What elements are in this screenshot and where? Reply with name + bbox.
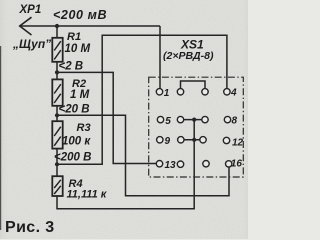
node D junction dot (57,164.3) xyxy=(55,162,59,166)
wire: node D right, up, right, down to contact 4 xyxy=(57,35,227,164)
contact 4 xyxy=(224,89,230,95)
resistor R1 xyxy=(52,38,62,62)
node C junction dot (57,115.3) xyxy=(55,113,59,117)
svg-text:16: 16 xyxy=(231,159,243,170)
svg-text:100 к: 100 к xyxy=(62,136,91,148)
svg-text:Рис. 3: Рис. 3 xyxy=(5,219,55,236)
contact 6 xyxy=(177,116,183,122)
contact 11 xyxy=(200,137,206,143)
svg-text:1: 1 xyxy=(164,88,170,99)
contact 14 xyxy=(177,161,183,167)
wire: node B right then down then to contact 13 xyxy=(57,72,156,163)
junction dot row 2 xyxy=(192,118,196,122)
contact 2 xyxy=(177,89,183,95)
resistor R2 xyxy=(52,79,62,105)
contact 7 xyxy=(202,116,208,122)
wire: contacts 10-11 link xyxy=(184,139,202,141)
wire: input node top rail y=26 from arrow to corner x=160 xyxy=(20,25,161,27)
wire: rail top to R1 xyxy=(56,26,58,38)
contact 9 xyxy=(157,137,163,143)
svg-text:R3: R3 xyxy=(77,122,91,134)
svg-text:„Щуп”: „Щуп” xyxy=(12,37,51,51)
node A junction dot (57,26) xyxy=(55,24,59,28)
svg-text:8: 8 xyxy=(232,116,238,127)
wire: R1 to node B xyxy=(56,62,58,80)
svg-text:<200 мВ: <200 мВ xyxy=(53,8,107,22)
resistor R3 xyxy=(52,121,62,148)
svg-text:10 М: 10 М xyxy=(65,43,91,55)
svg-text:12: 12 xyxy=(232,138,244,149)
wire: node C right, down, right, up to contact 16 xyxy=(57,115,229,196)
svg-text:9: 9 xyxy=(165,136,171,147)
svg-text:5: 5 xyxy=(165,116,171,127)
contact 1 xyxy=(156,89,162,95)
paper background xyxy=(0,0,248,239)
svg-text:(2×РВД-8): (2×РВД-8) xyxy=(163,50,214,62)
switch contacts: circles xyxy=(156,89,232,168)
wire: bracket shorting contacts 2 and 3 xyxy=(181,81,206,89)
contact 8 xyxy=(224,116,230,122)
contact 3 xyxy=(202,89,208,95)
svg-text:1 М: 1 М xyxy=(70,89,90,101)
connector XP1 arrowhead xyxy=(20,17,32,35)
wire: R2 to node C xyxy=(56,106,58,121)
resistor R4 xyxy=(52,176,62,196)
svg-text:11,111 к: 11,111 к xyxy=(67,189,108,201)
wire: drop to switch contact 1 xyxy=(159,26,161,89)
wire: R3 to node D xyxy=(56,149,58,177)
switch XS1 enclosure (dash-dot) xyxy=(149,77,244,177)
contact 12 xyxy=(223,137,229,143)
contact 5 xyxy=(157,116,163,122)
contact 13 xyxy=(156,161,162,167)
node B junction dot (57,72.4) xyxy=(55,70,59,74)
svg-text:<200 В: <200 В xyxy=(54,152,91,164)
contact 16 xyxy=(226,161,232,167)
svg-text:13: 13 xyxy=(165,160,177,171)
contact 15 xyxy=(203,161,209,167)
contact 10 xyxy=(178,137,184,143)
svg-text:<2 В: <2 В xyxy=(59,61,84,73)
svg-text:ХР1: ХР1 xyxy=(19,4,42,16)
svg-text:<20 В: <20 В xyxy=(59,104,90,116)
svg-text:4: 4 xyxy=(230,88,237,99)
junction dot row 3 xyxy=(192,138,196,142)
wire: R4 bottom, down, right, up to switch common xyxy=(57,120,194,209)
left page-edge shadow xyxy=(0,46,1,230)
wire: contacts 6-7 link xyxy=(184,119,202,121)
svg-text:R1: R1 xyxy=(67,31,81,43)
